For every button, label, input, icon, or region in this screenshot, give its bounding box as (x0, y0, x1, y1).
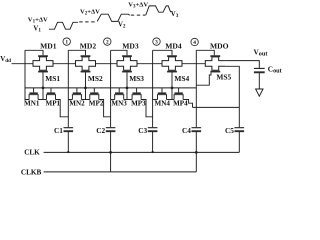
label C1 (54, 126, 63, 135)
svg-text:MS1: MS1 (45, 74, 60, 83)
svg-text:V1+ΔV: V1+ΔV (28, 16, 48, 24)
svg-text:CLKB: CLKB (21, 169, 42, 177)
wire node 4 vertical (195, 50, 197, 127)
node 3 circled number (153, 38, 160, 46)
label MD3 (122, 42, 139, 51)
wire MDO to Vout (225, 61, 259, 68)
svg-text:V3: V3 (171, 11, 179, 19)
svg-text:MD1: MD1 (40, 42, 57, 51)
svg-text:MD3: MD3 (122, 42, 139, 51)
label C4 (182, 126, 191, 135)
wire gate of MDO to node (196, 50, 214, 55)
label MD2 (80, 42, 97, 51)
label MS2 (88, 74, 103, 83)
wire MP3 drain hook to node 3 (141, 100, 153, 117)
capacitor C3 (148, 128, 158, 132)
wire MDO lower edge to C5 (225, 66, 239, 107)
wire Vdd rail (12, 63, 34, 65)
wire MD2 drain to node 2 (96, 63, 118, 65)
capacitor C4 (192, 128, 202, 132)
node 4 circled number (191, 38, 198, 46)
label V3+dV (128, 1, 148, 9)
svg-text:CLK: CLK (24, 149, 40, 157)
wire MD3 drain to node 3 (137, 63, 162, 65)
label V2 (118, 22, 126, 30)
svg-text:MS2: MS2 (88, 74, 103, 83)
svg-text:MN3: MN3 (111, 100, 127, 108)
label V3 (171, 11, 179, 19)
wire node 1 vertical (67, 50, 69, 127)
label MN1 (24, 100, 40, 108)
svg-text:V2+ΔV: V2+ΔV (80, 8, 100, 16)
label MP1 (46, 100, 61, 108)
transistor MD3 with MS3 (dual-gate cross symbol) (117, 56, 137, 72)
svg-text:C3: C3 (138, 126, 147, 135)
label CLK (24, 149, 40, 157)
label MS5 (216, 73, 231, 82)
svg-text:MS5: MS5 (216, 73, 231, 82)
wire gate of MD3 to node (111, 50, 127, 55)
transistor MP1 (46, 88, 56, 100)
wire MD4 drain to node 4 (182, 63, 205, 65)
svg-text:MDO: MDO (210, 42, 229, 51)
label MS4 (174, 74, 189, 83)
label C5 (225, 126, 234, 135)
wire node 2 vertical (110, 50, 112, 127)
wire Vdd branch vertical (25, 50, 29, 99)
svg-text:MP1: MP1 (46, 100, 61, 108)
capacitor C1 (64, 128, 74, 132)
label MN4 (155, 100, 171, 108)
wire MP2 drain hook to node 2 (99, 100, 111, 117)
svg-text:MN1: MN1 (24, 100, 40, 108)
svg-text:MS3: MS3 (129, 74, 144, 83)
svg-text:C2: C2 (96, 126, 105, 135)
wire C4 to CLKB (195, 132, 198, 172)
svg-text:MN4: MN4 (155, 100, 171, 108)
circuit schematic: four-stage charge pump (0, 0, 285, 177)
label MP3 (131, 100, 146, 108)
label V1 (33, 26, 41, 34)
wire CLKB rail (44, 171, 197, 173)
label MN3 (111, 100, 127, 108)
transistor MN4 (157, 88, 167, 100)
wire C5 to CLK (238, 132, 240, 153)
wire node 3 vertical (152, 50, 154, 127)
transistor MD4 with MS4 (dual-gate cross symbol) (162, 56, 182, 72)
svg-text:1: 1 (65, 40, 68, 46)
svg-text:V2: V2 (118, 22, 126, 30)
label C3 (138, 126, 147, 135)
svg-text:C4: C4 (182, 126, 191, 135)
svg-text:C5: C5 (225, 126, 234, 135)
label V2+dV (80, 8, 100, 16)
svg-text:MD2: MD2 (80, 42, 97, 51)
svg-text:MD4: MD4 (165, 42, 182, 51)
label MDO (210, 42, 229, 51)
waveform V1 trace (49, 22, 78, 29)
wire MS5 gate to node 4 (196, 72, 211, 85)
wire MD1 drain to node 1 (53, 63, 76, 65)
label Cout (268, 64, 283, 74)
label MP2 (89, 100, 104, 108)
svg-text:3: 3 (155, 40, 158, 46)
ground (256, 89, 263, 96)
wire C3 to CLK (152, 132, 154, 153)
wire source row stage 1 (25, 99, 47, 101)
transistor MP3 (132, 88, 142, 100)
capacitor C2 (106, 128, 116, 132)
label Vout (254, 48, 269, 58)
label MS3 (129, 74, 144, 83)
label MN2 (69, 100, 85, 108)
wire MS4 gate vertical (171, 72, 174, 99)
label MS1 (45, 74, 60, 83)
transistor MD1 with MS1 (dual-gate cross symbol) (33, 56, 53, 72)
node 2 circled number (104, 38, 111, 46)
transistor MP4 (174, 88, 184, 100)
transistor MP2 (89, 88, 99, 100)
wire gate control bus (25, 87, 196, 89)
wire MS1 gate vertical (42, 72, 45, 99)
svg-text:V1: V1 (33, 26, 41, 34)
wire MS3 gate vertical (126, 72, 129, 99)
wire gate of MD2 to node (68, 50, 85, 55)
wire dashed V2 to V3 (131, 14, 146, 16)
svg-text:MP4: MP4 (173, 100, 188, 108)
svg-text:V3+ΔV: V3+ΔV (128, 1, 148, 9)
wire C2 to CLKB (109, 132, 112, 172)
wire source row stage 2 (68, 99, 90, 101)
wire Vout branch horizontal (193, 106, 240, 108)
wire MP1 drain hook to node 1 (56, 100, 69, 117)
wire source row stage 4 (153, 99, 175, 101)
capacitor Cout (254, 68, 265, 72)
wire gate of MD4 to node (153, 50, 172, 55)
wire C1 to CLK (67, 132, 69, 153)
wire source row stage 3 (111, 99, 133, 101)
wire Cout to ground (258, 73, 260, 89)
transistor MN2 (72, 88, 82, 100)
label MD4 (165, 42, 182, 51)
svg-text:MP3: MP3 (131, 100, 146, 108)
svg-text:2: 2 (106, 40, 109, 46)
wire MS2 gate vertical (84, 72, 87, 99)
svg-text:MP2: MP2 (89, 100, 104, 108)
node 1 circled number (63, 38, 70, 46)
label Vdd (0, 55, 11, 64)
svg-text:C1: C1 (54, 126, 63, 135)
wire CLK rail (44, 151, 240, 153)
transistor MD2 with MS2 (dual-gate cross symbol) (76, 56, 96, 72)
svg-text:MS4: MS4 (174, 74, 189, 83)
svg-text:4: 4 (193, 40, 196, 46)
waveform V3 trace (146, 6, 171, 15)
svg-text:MN2: MN2 (69, 100, 85, 108)
transistor MDO with MS5 (dual-gate cross symbol) (205, 56, 225, 72)
wire dashed V1 to V2 (79, 21, 97, 23)
wire gate of MD1 to node (25, 50, 43, 55)
capacitor C5 (235, 128, 245, 132)
label C2 (96, 126, 105, 135)
wire C5 vertical (238, 107, 240, 127)
label MP4 (173, 100, 188, 108)
transistor MN3 (114, 88, 124, 100)
waveform V2 trace (97, 14, 130, 21)
label V1+dV (28, 16, 48, 24)
label CLKB (21, 169, 42, 177)
transistor MN1 (29, 88, 39, 100)
wire MP4 drain hook (183, 100, 192, 108)
label MD1 (40, 42, 57, 51)
